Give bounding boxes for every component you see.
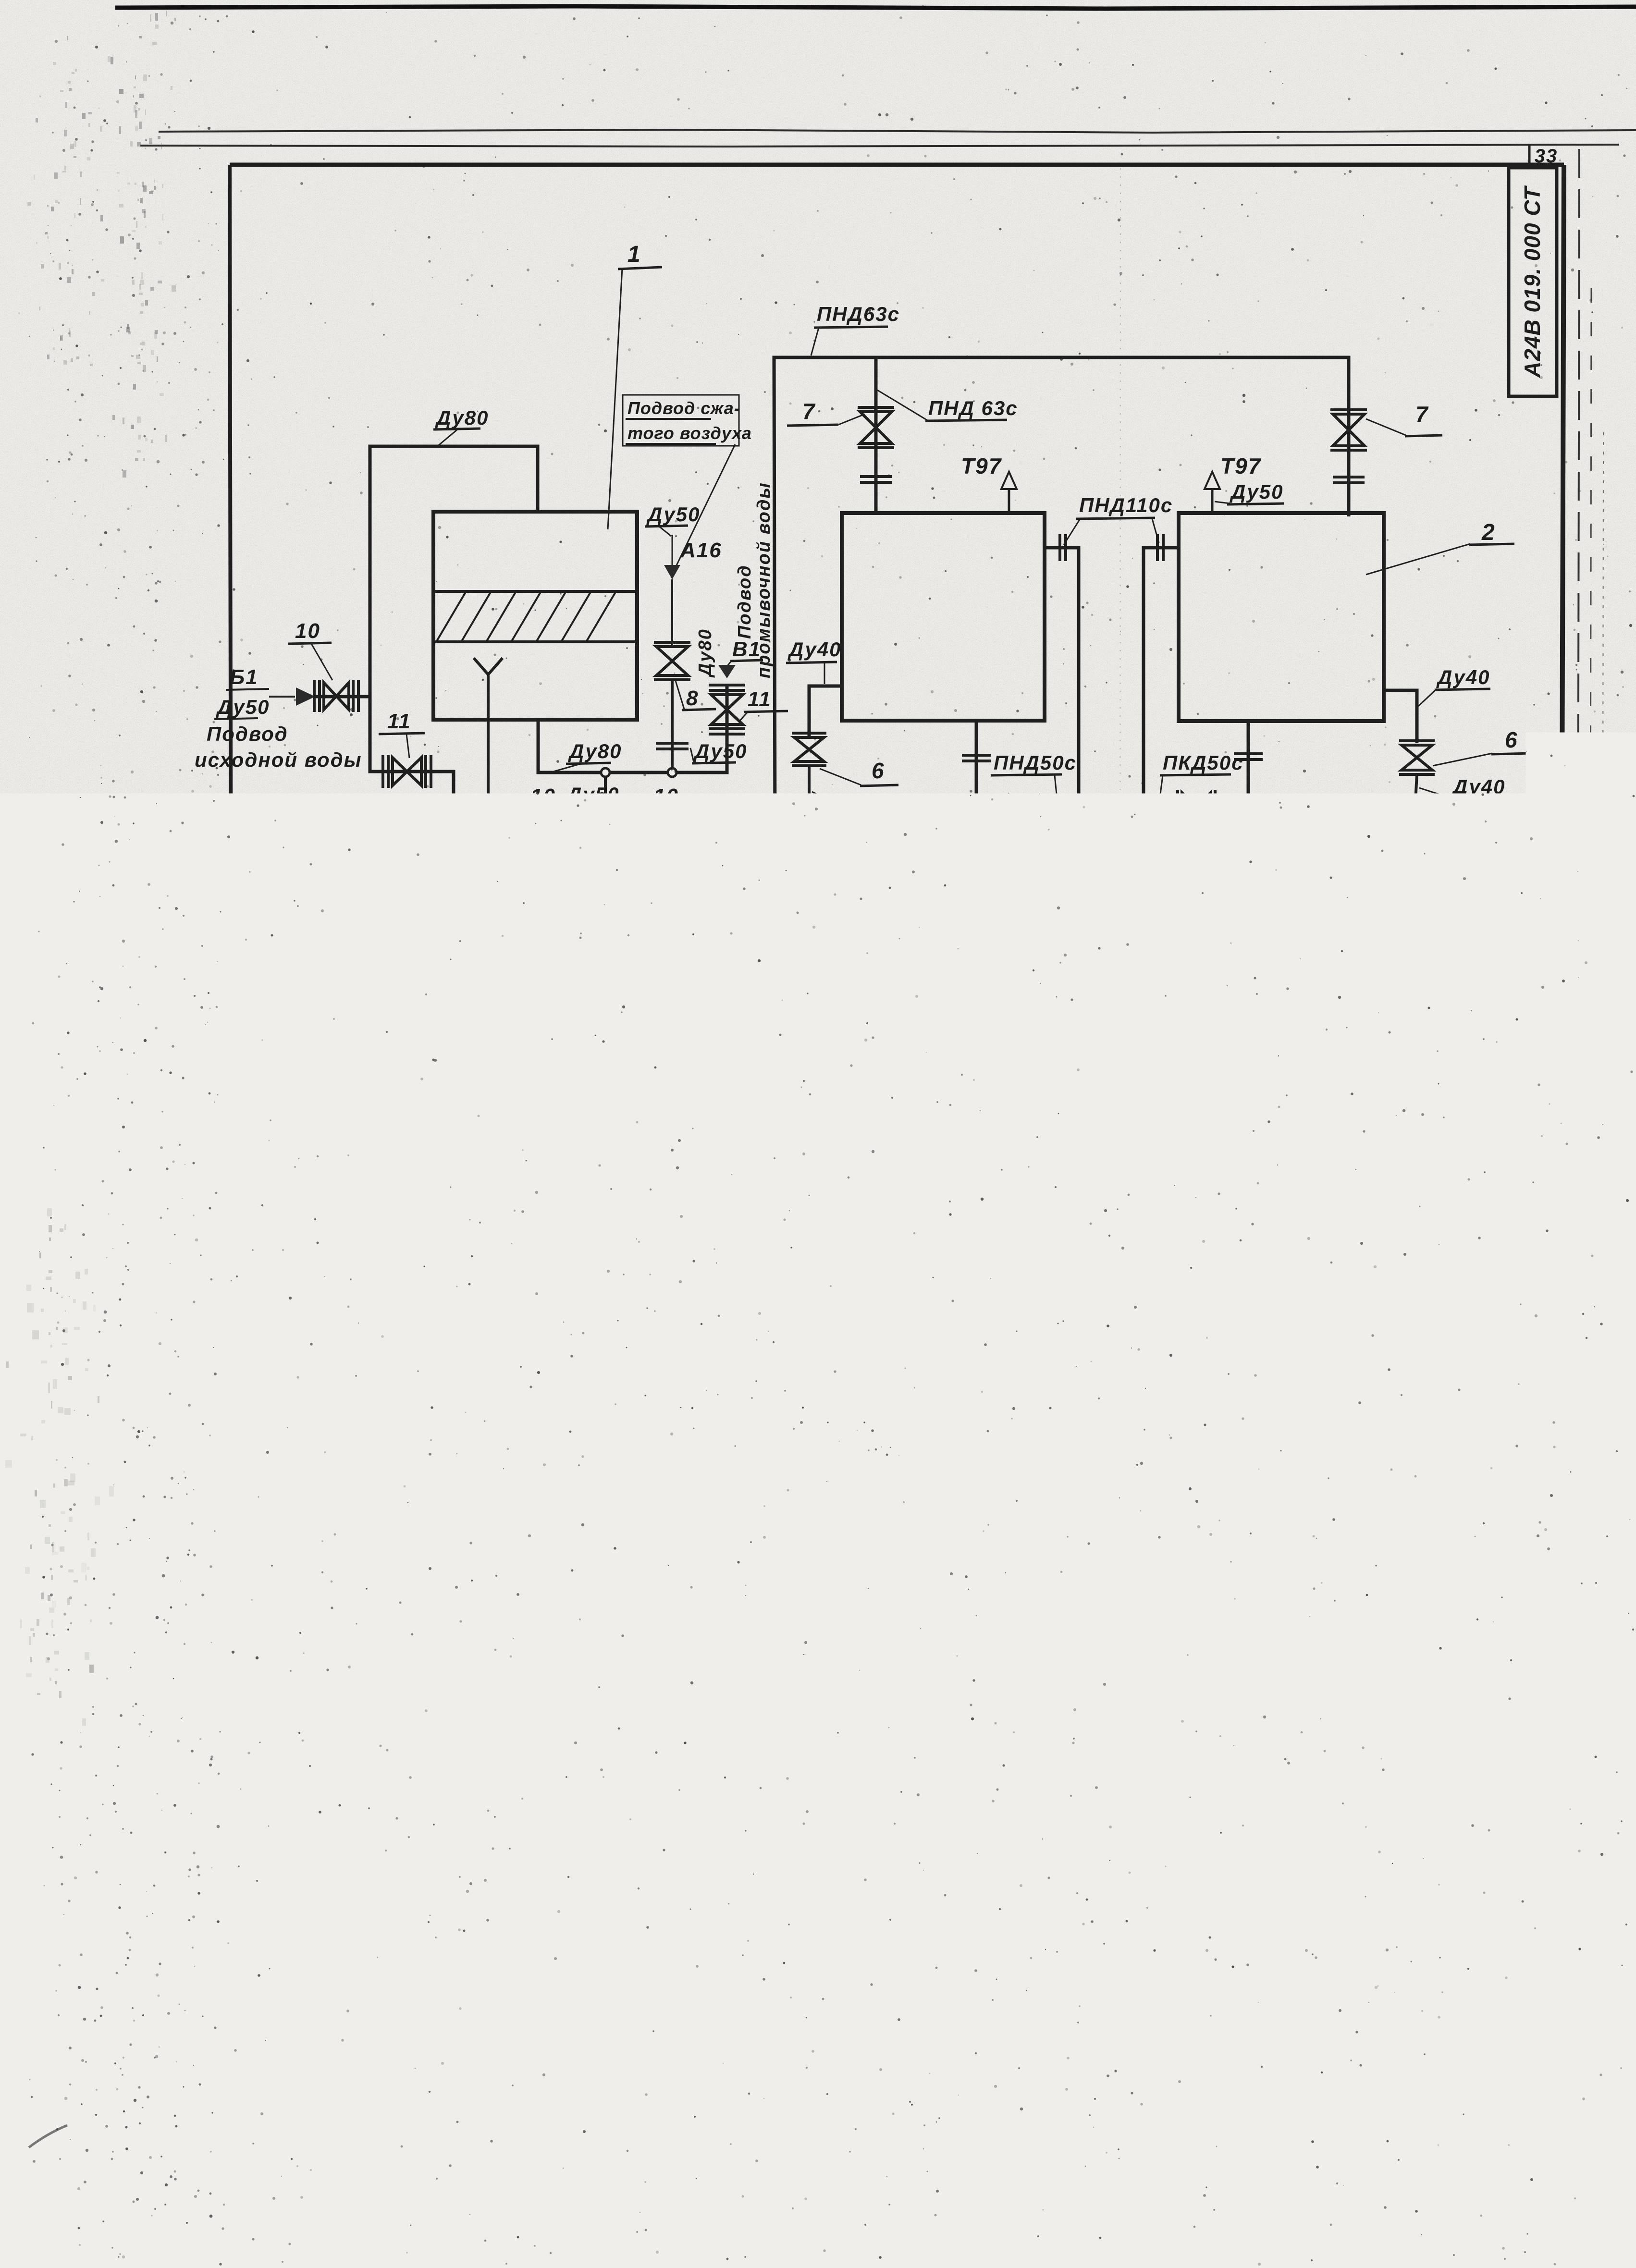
regulator 3 left (793, 812, 827, 906)
right margin scan streaks (1576, 149, 1603, 2109)
svg-text:Регулятор постоянного уров: Регулятор постоянного уровня (702, 1441, 1063, 1463)
svg-text:Ду25: Ду25 (600, 1228, 652, 1250)
label 6 first (820, 758, 898, 786)
svg-text:2: 2 (1133, 1785, 1146, 1809)
doc number big (1147, 1926, 1539, 1964)
svg-text:Подп. и дата: Подп. и дата (197, 1818, 209, 1895)
svg-text:В19.2: В19.2 (312, 823, 379, 849)
pipe tank2 side nozzle (1141, 534, 1179, 927)
label PND25s left (884, 989, 977, 1063)
svg-text:Ду80: Ду80 (435, 406, 489, 429)
svg-text:Технологическая схема.: Технологическая схема. (1153, 2026, 1357, 2045)
outer sheet border top lines (140, 130, 1636, 147)
filter internal Y nozzle (475, 659, 502, 674)
svg-text:Грановский: Грановский (993, 2024, 1066, 2038)
svg-text:Комиссаров: Комиссаров (993, 2007, 1068, 2022)
valve 5 second (1037, 1109, 1076, 1144)
svg-text:9: 9 (651, 1716, 663, 1738)
node junction du80 header to gate line (601, 768, 610, 840)
svg-text:Взам. инв.№: Взам. инв.№ (192, 1746, 203, 1810)
valve 5 first (792, 947, 826, 1065)
svg-text:ПНД50с: ПНД50с (439, 897, 522, 920)
label 6 fourth (1433, 727, 1532, 766)
pipe Du80 loop (370, 446, 538, 696)
svg-text:Масса: Масса (1433, 1967, 1473, 1981)
valve 7 right (1330, 357, 1367, 516)
label PND25s right (1316, 991, 1419, 1067)
node junction header B right (1408, 944, 1417, 953)
svg-text:2: 2 (1133, 1502, 1146, 1526)
valve 6 second (1006, 794, 1043, 827)
svg-text:Фильтр осветлительный, ве: Фильтр осветлительный, верти- (702, 1352, 1086, 1374)
label Podvod szhatogo vozdukha (623, 395, 752, 569)
valve 6 first (792, 733, 826, 766)
valve 5 third (1142, 1109, 1180, 1144)
svg-text:Кол.: Кол. (1117, 1317, 1165, 1340)
label vykhod rastvora soli rotated (1113, 1131, 1161, 1236)
label 5 first (734, 994, 794, 1028)
node junction B19.2 (450, 836, 459, 845)
label PND63s gate line (531, 843, 637, 904)
svg-text:Подвод: Подвод (207, 723, 288, 745)
svg-text:3: 3 (1500, 843, 1514, 868)
pipe Y drain to B19.3 (323, 674, 495, 895)
pipe header B PND40s (808, 947, 1413, 949)
label 11 raw (379, 710, 425, 758)
svg-text:Т97: Т97 (961, 454, 1002, 478)
gate valve 10 inlet (314, 680, 370, 712)
pipe ejector1 inlet (809, 1113, 900, 1140)
svg-text:Ду80: Ду80 (695, 628, 715, 678)
svg-text:ПНД50с: ПНД50с (994, 751, 1077, 774)
outer sheet border bottom lines (48, 1970, 1636, 2136)
flow arrow pnd25 left (850, 1057, 873, 1072)
svg-text:Блок приготовления: Блок приготовления (1159, 1971, 1340, 1990)
left stamp labels (192, 1642, 215, 2088)
svg-text:Вентиль 15ч75п1 Ду50: Вентиль 15ч75п1 Ду50 (712, 1633, 975, 1656)
svg-text:7: 7 (1415, 402, 1429, 427)
svg-text:ПНД110с: ПНД110с (1079, 494, 1173, 516)
valve 11 raw water (370, 696, 454, 788)
label Seriya rotated (193, 1438, 216, 1599)
left stamp column (193, 1621, 232, 2096)
callout 1 (608, 242, 662, 529)
svg-text:Подп. и дата: Подп. и дата (197, 1642, 209, 1718)
svg-text:Инв.№ дубл.: Инв.№ дубл. (204, 1746, 215, 1810)
svg-text:33: 33 (1535, 146, 1558, 167)
svg-text:Масштаб: Масштаб (1483, 1968, 1540, 1981)
valve 9 left (792, 1127, 826, 1223)
node B19.2 drain arrow (312, 823, 379, 869)
svg-text:Подвод сжа-: Подвод сжа- (627, 398, 740, 418)
svg-text:ПНД 25с: ПНД 25с (887, 989, 977, 1011)
node B1.4 outlet (1067, 1127, 1117, 1186)
node B1 arrow left (269, 687, 315, 706)
label Du80 top (433, 406, 489, 447)
svg-text:Ду40: Ду40 (1451, 775, 1505, 798)
label Du50 gate (564, 783, 619, 820)
svg-text:А24В 019. 000 СТ: А24В 019. 000 СТ (1520, 185, 1545, 378)
node B1 arrow (718, 665, 736, 678)
svg-text:5: 5 (651, 1551, 663, 1573)
label 11 wash (740, 687, 788, 721)
gate valve 10 left (549, 823, 597, 857)
svg-text:Ду50: Ду50 (693, 740, 747, 762)
svg-text:В19.3: В19.3 (348, 868, 414, 893)
svg-text:фильтра Ф 720: фильтра Ф 720 (702, 1510, 871, 1533)
label Du40 below valve6 (812, 792, 916, 819)
svg-text:ПНД40с: ПНД40с (1451, 924, 1534, 947)
label B1 inlet left (214, 665, 270, 719)
label PND50s right (1159, 751, 1243, 805)
svg-text:раствора соли.: раствора соли. (1189, 2008, 1323, 2026)
valve 7 left (858, 357, 894, 513)
svg-text:23056-05: 23056-05 (1254, 2097, 1327, 2114)
svg-text:Рук.гр.: Рук.гр. (936, 2041, 981, 2055)
main drawing frame (193, 165, 1564, 2096)
svg-text:4: 4 (651, 1503, 663, 1525)
svg-text:Ду80: Ду80 (568, 740, 622, 762)
svg-text:2: 2 (1481, 520, 1496, 545)
gosstroy santekhproekt (1373, 2042, 1550, 2096)
svg-text:Вентиль 15ч75п1 Ду40: Вентиль 15ч75п1 Ду40 (712, 1591, 975, 1615)
svg-text:Выпуск 2-1: Выпуск 2-1 (199, 1234, 221, 1355)
svg-text:ПКД50с: ПКД50с (1163, 751, 1243, 774)
valve 6 fourth (1399, 741, 1435, 774)
svg-text:ПНД90с: ПНД90с (371, 797, 454, 820)
scan top dark streak (115, 6, 1636, 9)
label Du80 rotated (695, 628, 715, 678)
pipe ejector1 outlet (974, 1111, 1040, 1142)
svg-text:ПНД63с: ПНД63с (817, 303, 900, 325)
label Vypusk 2-1 rotated (199, 1234, 221, 1355)
label Du25 second (1404, 1078, 1459, 1124)
label Du40 right lower (1419, 775, 1506, 799)
svg-text:2: 2 (1133, 1455, 1146, 1478)
label 7 left (787, 399, 865, 426)
svg-text:5: 5 (744, 994, 757, 1019)
valve 8 (654, 642, 690, 680)
label Du50 air (645, 503, 700, 536)
svg-text:3 4: 3 4 (1348, 2096, 1374, 2114)
svg-text:Поз.: Поз. (643, 1320, 682, 1340)
pipe gate line PND63s (455, 834, 775, 843)
svg-text:ПНД110с: ПНД110с (338, 940, 432, 962)
svg-text:ГОССТРОЙ СССР: ГОССТРОЙ СССР (1390, 2042, 1521, 2059)
svg-text:2: 2 (1133, 1412, 1146, 1435)
valve 6 third (1178, 790, 1215, 824)
svg-text:11: 11 (387, 710, 411, 733)
svg-text:—: — (1441, 1990, 1464, 2014)
table rows text (645, 1352, 1146, 1809)
node B19.3 drain arrow (318, 868, 414, 905)
label 10 first (288, 619, 332, 680)
svg-text:5: 5 (1184, 1018, 1197, 1043)
svg-text:ТВОРА СОЛИ: ТВОРА СОЛИ (1144, 1131, 1161, 1234)
tank 2 left (842, 513, 1045, 721)
svg-text:Утв.: Утв. (936, 2080, 968, 2095)
pipe below valve 8 with union Du50 (656, 681, 689, 772)
svg-text:6: 6 (996, 850, 1009, 875)
node T97 vent left (961, 454, 1017, 513)
svg-text:В19.5: В19.5 (345, 900, 411, 926)
svg-text:Б1: Б1 (230, 665, 258, 689)
svg-text:Лист: Лист (957, 1992, 991, 2005)
svg-text:6: 6 (1505, 727, 1518, 752)
svg-text:2: 2 (651, 1412, 663, 1435)
svg-text:Ду40: Ду40 (787, 638, 841, 661)
left edge scan smudge (0, 11, 335, 2147)
svg-text:Вентиль 15ч16п Ду50: Вентиль 15ч16п Ду50 (712, 1676, 962, 1700)
label Du25 bottom (1122, 1224, 1183, 1264)
label 8 (675, 679, 716, 710)
label PND110s (335, 928, 434, 965)
svg-text:Инв.№ подл.: Инв.№ подл. (197, 2015, 209, 2088)
callout 2 tank (1366, 520, 1514, 575)
svg-text:Грановский: Грановский (993, 2041, 1066, 2055)
svg-text:4: 4 (1273, 1178, 1287, 1203)
node T97 vent right (1205, 454, 1262, 513)
svg-text:9: 9 (1469, 1132, 1483, 1157)
svg-text:№ докум.: № докум. (993, 1991, 1054, 2005)
pipe valve5 to ejector1 (809, 1065, 922, 1120)
svg-text:Ду40: Ду40 (862, 796, 916, 818)
svg-text:ПНД40с: ПНД40с (1211, 919, 1294, 942)
pipe drain v3 (1119, 810, 1127, 931)
label Du40 right top (1418, 666, 1490, 706)
svg-text:Задвижка 30ч6бр Ду50: Задвижка 30ч6бр Ду50 (712, 1748, 970, 1772)
label PND63s top (811, 303, 900, 356)
svg-text:Ду25: Ду25 (1405, 1078, 1459, 1101)
label Du20 second (1339, 1076, 1394, 1125)
svg-text:того воздуха: того воздуха (627, 423, 752, 443)
pipe tank2 right nozzle (1384, 690, 1417, 741)
label 7 right (1366, 402, 1442, 436)
svg-text:6: 6 (872, 758, 885, 783)
pipe pnd25s right branch (1294, 997, 1429, 1120)
label PND32s left (995, 1130, 1082, 1204)
label 5 fourth (1431, 1009, 1523, 1036)
svg-text:И: И (1367, 1995, 1381, 2015)
pipe between valves 5 (1076, 1125, 1144, 1128)
label 6 third (1203, 827, 1249, 877)
svg-text:ПНД40с: ПНД40с (856, 880, 939, 903)
label 10 third (646, 785, 688, 827)
fold mark dotted line (1119, 168, 1120, 2095)
svg-text:Наименование: Наименование (805, 1315, 979, 1340)
svg-text:Вентиль 15ч75п1 Ду32: Вентиль 15ч75п1 Ду32 (712, 1549, 975, 1573)
label Du50 vent (1215, 480, 1284, 504)
svg-text:—: — (1500, 1990, 1523, 2014)
svg-text:ПНД 25с: ПНД 25с (1329, 991, 1419, 1013)
vertical doc number box A24B 019.000 CT (1509, 168, 1557, 396)
svg-text:тром: тром (1176, 1796, 1213, 1810)
label PND50s left (991, 751, 1077, 808)
svg-text:Постав-: Постав- (1176, 1743, 1231, 1757)
pipe drain header A PND110s (320, 925, 1144, 929)
valve 11 wash (709, 685, 745, 772)
svg-text:Т97: Т97 (1220, 454, 1262, 478)
callout 3 regulator (1421, 843, 1532, 883)
sheet number box 33 (1529, 146, 1558, 167)
svg-text:исходной воды: исходной воды (195, 748, 362, 771)
label PND110s unions (1064, 494, 1173, 545)
callout 4 ejector (1256, 1135, 1308, 1205)
parts table (642, 1298, 1235, 1814)
svg-text:5: 5 (1032, 1018, 1046, 1042)
svg-text:7: 7 (651, 1634, 663, 1657)
label Du20 first (819, 1073, 874, 1124)
pipe valve6 to regulator left (794, 767, 824, 812)
regulator 3 right (1396, 818, 1432, 908)
svg-text:10: 10 (653, 785, 679, 808)
pipe ejector2 inlet right (1317, 1114, 1411, 1141)
svg-text:Ду50: Ду50 (646, 503, 700, 526)
label Du25 first (741, 1072, 806, 1125)
label Podvod iskhodnoy vody (195, 723, 362, 771)
svg-text:САНТЕХПРОЕКТ: САНТЕХПРОЕКТ (1373, 2062, 1550, 2085)
svg-text:ВЫХОД РАС-: ВЫХОД РАС- (1129, 1134, 1145, 1236)
label PND40s left stem (813, 880, 939, 917)
filter vessel 1 (433, 512, 637, 720)
svg-text:4: 4 (1133, 1592, 1146, 1616)
svg-text:Подвод: Подвод (735, 564, 755, 639)
svg-text:6: 6 (651, 1593, 663, 1615)
svg-text:ФОРМАТ А2: ФОРМАТ А2 (1387, 2096, 1485, 2113)
svg-text:3: 3 (651, 1455, 663, 1478)
svg-text:ПНД63с: ПНД63с (554, 879, 637, 902)
doc title (1153, 1971, 1357, 2045)
pipe air line down (671, 579, 673, 646)
pipe tank1 left nozzle (809, 686, 842, 736)
svg-text:Лист: Лист (1378, 2026, 1414, 2041)
label Podvod rabochey vody (374, 1198, 655, 1250)
svg-text:Бак V=1,6м³: Бак V=1,6м³ (712, 1411, 845, 1434)
svg-text:1: 1 (1133, 1677, 1146, 1701)
svg-text:Спивак: Спивак (993, 2080, 1038, 2095)
svg-text:Изм.: Изм. (934, 1992, 960, 2005)
svg-text:7: 7 (802, 399, 816, 424)
table header text (643, 1315, 1238, 1340)
wire drain fan lines (258, 861, 337, 1016)
label Drenazh (266, 987, 356, 1013)
label Du50 union (690, 740, 747, 763)
svg-text:3: 3 (1133, 1749, 1146, 1773)
lit massa masshtab (1366, 1964, 1540, 2041)
svg-text:ПНД 32с: ПНД 32с (1219, 1062, 1309, 1084)
label PND63s riser (877, 390, 1018, 421)
svg-text:Лит.: Лит. (1378, 1967, 1410, 1981)
svg-text:10: 10 (295, 619, 320, 643)
svg-text:Ду50: Ду50 (216, 696, 270, 718)
format annotation (1254, 2096, 1485, 2114)
pipe to B19.2 (323, 772, 454, 858)
svg-text:Ду50: Ду50 (1230, 480, 1283, 503)
pipe riser PND63s (774, 357, 1349, 841)
svg-text:ПНД 40с: ПНД 40с (1113, 1165, 1130, 1230)
svg-text:2: 2 (1133, 1634, 1146, 1657)
label PND40s mid (1192, 919, 1294, 948)
pipe regulator stem right (1412, 908, 1413, 1001)
table prim note (1175, 1743, 1245, 1810)
svg-text:Пров.: Пров. (936, 2024, 972, 2038)
title block signatures (1070, 2006, 1129, 2093)
ejector 4 left (900, 1105, 974, 1148)
label 5 third (1163, 1018, 1214, 1109)
svg-text:кальный ФОВ -1,0- 0,6: кальный ФОВ -1,0- 0,6 (702, 1374, 943, 1397)
svg-text:ПНД 63с: ПНД 63с (928, 397, 1018, 419)
svg-text:Задвижка 30ч6бр Ду80: Задвижка 30ч6бр Ду80 (712, 1784, 970, 1808)
label PND50s drain (419, 895, 522, 921)
pipe regulator stem left (807, 906, 816, 943)
svg-text:промывочной воды: промывочной воды (754, 482, 774, 678)
svg-text:11: 11 (646, 1786, 669, 1808)
svg-text:6: 6 (1224, 850, 1238, 875)
svg-text:Разраб.: Разраб. (936, 2007, 985, 2022)
title block staff labels (934, 1991, 1068, 2095)
node B19.5 drain arrow (319, 900, 411, 936)
node junction air line (668, 768, 677, 777)
svg-text:2: 2 (1133, 1715, 1146, 1739)
label Du40 left (786, 638, 841, 684)
svg-text:ляются: ляются (1175, 1756, 1229, 1771)
svg-text:Листов 7: Листов 7 (1441, 2026, 1505, 2041)
svg-text:в комплек: в комплек (1176, 1770, 1242, 1784)
label 5 second (1018, 1018, 1058, 1109)
node B1.1 inlet arrow (635, 1214, 656, 1231)
ejector 4 right (1244, 1106, 1317, 1149)
svg-text:8: 8 (686, 687, 699, 710)
svg-text:А16: А16 (680, 539, 722, 562)
svg-text:Вентиль 15ч9р2 Ду 25: Вентиль 15ч9р2 Ду 25 (712, 1714, 970, 1738)
label PND40s right (1415, 924, 1534, 949)
svg-text:4: 4 (1133, 1550, 1146, 1574)
svg-text:1: 1 (627, 242, 641, 267)
svg-text:Ду20: Ду20 (820, 1073, 874, 1096)
svg-text:Ду25: Ду25 (742, 1072, 796, 1095)
label 6 second (990, 827, 1026, 877)
svg-text:Ду20: Ду20 (1340, 1076, 1394, 1099)
svg-text:раствора соли: раствора соли (702, 1463, 869, 1485)
pipe B1.1 bottom line (656, 1221, 1411, 1225)
pipe tank2 bottom drain (1097, 721, 1263, 809)
svg-text:Б1.4: Б1.4 (1067, 1162, 1115, 1186)
node junction drain 1 (1074, 922, 1083, 931)
label Du80 bottom (554, 740, 622, 772)
svg-text:Серия 5.903-10: Серия 5.903-10 (193, 1438, 216, 1599)
svg-text:1: 1 (1133, 1366, 1146, 1389)
node A16 compressed air inlet arrow (664, 535, 722, 579)
label PND40s outlet (1095, 1064, 1181, 1120)
pipe valve6 to regulator right (1401, 774, 1431, 818)
pipe Du80 bottom header (538, 720, 727, 772)
svg-text:10: 10 (530, 785, 556, 808)
label 9 right (1424, 1132, 1497, 1164)
node junction header B left (804, 943, 812, 951)
pipe tank1 side nozzle (1045, 534, 1085, 927)
label B1 wash water (727, 637, 763, 666)
svg-text:1: 1 (651, 1366, 663, 1389)
svg-text:11: 11 (748, 687, 772, 711)
label PND90s (368, 797, 454, 855)
svg-text:5: 5 (1493, 1009, 1507, 1034)
pipe tank1 bottom drain (962, 721, 1123, 813)
svg-text:г. Москва: г. Москва (1450, 2084, 1502, 2096)
svg-text:В1.1: В1.1 (606, 1198, 655, 1221)
label 9 left (750, 1121, 796, 1157)
label PND32s right (1217, 1062, 1309, 1123)
svg-text:регенерационного: регенерационного (1182, 1989, 1340, 2008)
